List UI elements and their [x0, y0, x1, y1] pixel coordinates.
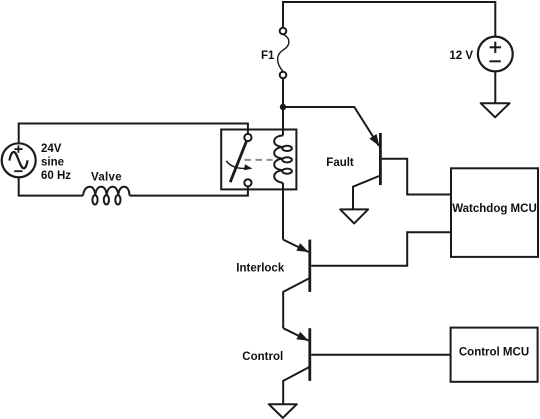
relay switch contact top: [244, 134, 251, 141]
relay K1 box: [221, 130, 296, 190]
wire watchdog MCU to interlock base: [311, 232, 451, 266]
svg-text:sine: sine: [41, 157, 64, 169]
transistor Q2 Interlock: [283, 240, 310, 329]
svg-text:Watchdog MCU: Watchdog MCU: [452, 203, 537, 215]
relay actuation arc arrow: [226, 161, 245, 169]
transistor Q3 Control: [283, 328, 310, 404]
relay coil: [274, 136, 292, 183]
inductor L1 Valve: [83, 187, 130, 205]
wire ac source top to relay switch: [19, 124, 248, 144]
svg-text:Valve: Valve: [91, 172, 122, 184]
wire control base to control MCU: [311, 354, 450, 356]
box Control MCU: [451, 328, 538, 382]
wire junction to fault emitter bend: [283, 107, 379, 146]
relay switch blade: [230, 141, 246, 182]
wire relay coil down to interlock emitter: [282, 183, 284, 240]
svg-text:60 Hz: 60 Hz: [41, 170, 71, 182]
svg-text:Control MCU: Control MCU: [459, 347, 529, 359]
ground below control collector: [269, 404, 297, 418]
voltage source V1 12V: [478, 37, 513, 72]
svg-text:Control: Control: [242, 351, 283, 363]
box Watchdog MCU: [451, 168, 538, 257]
svg-text:24V: 24V: [41, 143, 62, 155]
ground below fault collector: [340, 209, 368, 223]
svg-text:Interlock: Interlock: [236, 262, 285, 274]
node junction below fuse: [280, 104, 286, 110]
wire junction down into relay coil: [282, 107, 284, 136]
wire ac source bottom to valve inductor: [19, 177, 83, 195]
relay switch contact bottom: [244, 179, 251, 186]
svg-text:12 V: 12 V: [449, 50, 473, 62]
wire valve inductor to relay switch bottom: [130, 186, 248, 195]
ground below 12V source: [481, 103, 510, 117]
wire top rail from fuse to 12V source: [283, 2, 495, 37]
label 24V sine 60 Hz: [41, 143, 71, 182]
relay dashed link: [245, 159, 273, 161]
wire 12V source to ground: [494, 71, 496, 103]
wire fault base to watchdog MCU: [382, 159, 451, 195]
ac source V2: [2, 143, 36, 177]
svg-text:F1: F1: [261, 50, 275, 62]
fuse F1: [278, 28, 289, 79]
transistor Q1 Fault: [353, 133, 380, 209]
svg-text:Fault: Fault: [326, 157, 354, 169]
wire fuse to junction: [282, 79, 284, 107]
